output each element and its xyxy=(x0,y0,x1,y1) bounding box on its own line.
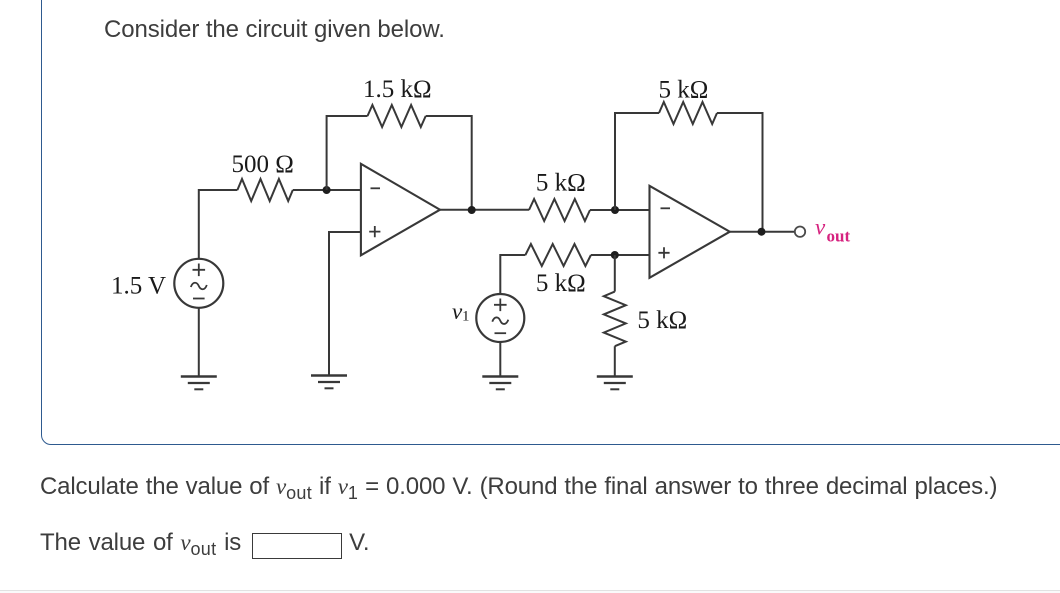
wire R 5k vertical to ground xyxy=(614,346,616,376)
bottom divider xyxy=(0,590,1060,591)
node N4 junction dot xyxy=(611,251,619,259)
wire VS bottom to ground xyxy=(198,308,200,377)
resistor R 5 kohm from v1 xyxy=(525,244,591,266)
ground G1 xyxy=(181,377,217,390)
wire feedback right vertical to U2 output xyxy=(717,113,763,232)
ground G3 xyxy=(482,377,518,390)
svg-text:1.5 V: 1.5 V xyxy=(111,273,166,300)
node N1 junction dot xyxy=(323,186,331,194)
svg-text:1: 1 xyxy=(462,309,470,325)
wire v1 top to R 5k xyxy=(500,255,525,294)
svg-text:out: out xyxy=(827,227,851,246)
wire U1 noninverting input to ground xyxy=(329,232,361,376)
svg-text:5 kΩ: 5 kΩ xyxy=(637,307,687,334)
wire U2 output to terminal xyxy=(730,231,795,233)
resistor R 5 kohm feedback U2 xyxy=(659,102,717,124)
resistor R 5 kohm interstage xyxy=(529,199,590,221)
svg-text:500 Ω: 500 Ω xyxy=(232,151,294,178)
wire feedback left vertical xyxy=(327,116,368,190)
op-amp U1 xyxy=(361,164,440,256)
wire U2 feedback left vertical xyxy=(615,113,659,210)
ground G2 xyxy=(311,376,347,389)
wire to U2 noninverting input xyxy=(591,254,650,256)
question card border xyxy=(41,0,1060,445)
node N5 output dot xyxy=(758,228,766,236)
voltage source VS 1.5 V xyxy=(174,259,223,308)
svg-text:5 kΩ: 5 kΩ xyxy=(659,77,709,104)
node N2 U1 output dot xyxy=(468,206,476,214)
resistor R 500 ohm xyxy=(237,179,292,201)
wire 500ohm to op-amp U1 inverting input xyxy=(293,189,361,191)
wire interstage R to U2 inverting input xyxy=(590,209,650,211)
svg-text:v: v xyxy=(815,215,826,240)
output terminal open circle xyxy=(795,227,805,237)
resistor R 5 kohm to ground xyxy=(604,292,626,347)
source v1 xyxy=(476,294,524,342)
wire feedback right vertical to U1 output xyxy=(426,116,472,210)
svg-text:1.5 kΩ: 1.5 kΩ xyxy=(363,76,432,103)
resistor R 1.5 kohm feedback xyxy=(368,105,426,127)
svg-text:5 kΩ: 5 kΩ xyxy=(536,270,586,297)
node N3 junction dot xyxy=(611,206,619,214)
svg-text:5 kΩ: 5 kΩ xyxy=(536,170,586,197)
ground G4 xyxy=(597,377,633,390)
op-amp U2 xyxy=(650,186,730,278)
wire v1 bottom to ground xyxy=(499,342,501,377)
wire node N4 down to R 5k vertical xyxy=(614,255,616,292)
wire VS top to 500ohm xyxy=(199,190,238,259)
wire U1 output to R 5k interstage xyxy=(440,209,529,211)
